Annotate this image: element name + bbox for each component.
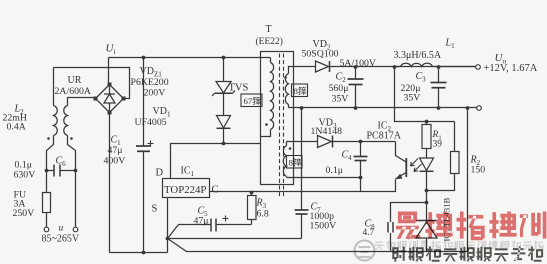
svg-text:50SQ100: 50SQ100 <box>302 49 339 60</box>
svg-text:(EE22): (EE22) <box>256 36 283 47</box>
svg-text:8箨: 8箨 <box>294 85 307 96</box>
svg-text:UR: UR <box>68 75 82 86</box>
svg-text:D: D <box>156 168 164 179</box>
svg-text:TOP224P: TOP224P <box>164 184 206 196</box>
svg-text:Ui: Ui <box>106 43 116 57</box>
svg-text:1N4148: 1N4148 <box>311 126 343 137</box>
svg-text:0.4A: 0.4A <box>7 122 26 133</box>
svg-text:8箨: 8箨 <box>289 157 302 168</box>
svg-text:35V: 35V <box>332 94 349 105</box>
svg-text:S: S <box>152 204 158 215</box>
svg-text:85~265V: 85~265V <box>42 234 80 245</box>
svg-text:1500V: 1500V <box>310 221 337 232</box>
svg-text:67箨: 67箨 <box>244 95 262 106</box>
svg-text:+12V, 1.67A: +12V, 1.67A <box>484 63 538 74</box>
svg-text:P6KE200: P6KE200 <box>131 77 169 88</box>
svg-text:3.3μH/6.5A: 3.3μH/6.5A <box>394 50 442 61</box>
svg-text:0.1μ: 0.1μ <box>326 165 344 176</box>
svg-text:IC1: IC1 <box>181 166 195 179</box>
svg-text:6.8: 6.8 <box>257 209 269 220</box>
svg-text:2A/600A: 2A/600A <box>55 86 91 97</box>
svg-text:250V: 250V <box>13 208 35 219</box>
svg-text:T: T <box>266 24 272 35</box>
svg-text:630V: 630V <box>14 170 36 181</box>
svg-text:UF4005: UF4005 <box>135 117 167 128</box>
svg-text:47μ: 47μ <box>194 216 209 227</box>
svg-text:560μ: 560μ <box>329 83 349 94</box>
svg-text:150: 150 <box>471 165 486 176</box>
svg-text:C6: C6 <box>56 156 67 169</box>
svg-text:PC817A: PC817A <box>367 131 402 142</box>
svg-text:L1: L1 <box>445 38 456 51</box>
svg-text:400V: 400V <box>104 156 126 167</box>
svg-text:35V: 35V <box>404 93 421 104</box>
svg-text:C: C <box>212 185 219 196</box>
svg-text:39: 39 <box>433 140 443 150</box>
svg-text:C3: C3 <box>416 71 427 84</box>
svg-text:C4: C4 <box>342 150 353 163</box>
svg-text:4.7: 4.7 <box>363 228 375 238</box>
svg-text:u: u <box>59 224 64 234</box>
svg-text:5A/100V: 5A/100V <box>340 58 376 69</box>
svg-text:47μ: 47μ <box>108 145 123 156</box>
svg-text:200V: 200V <box>144 88 166 99</box>
svg-text:TVS: TVS <box>229 83 249 94</box>
